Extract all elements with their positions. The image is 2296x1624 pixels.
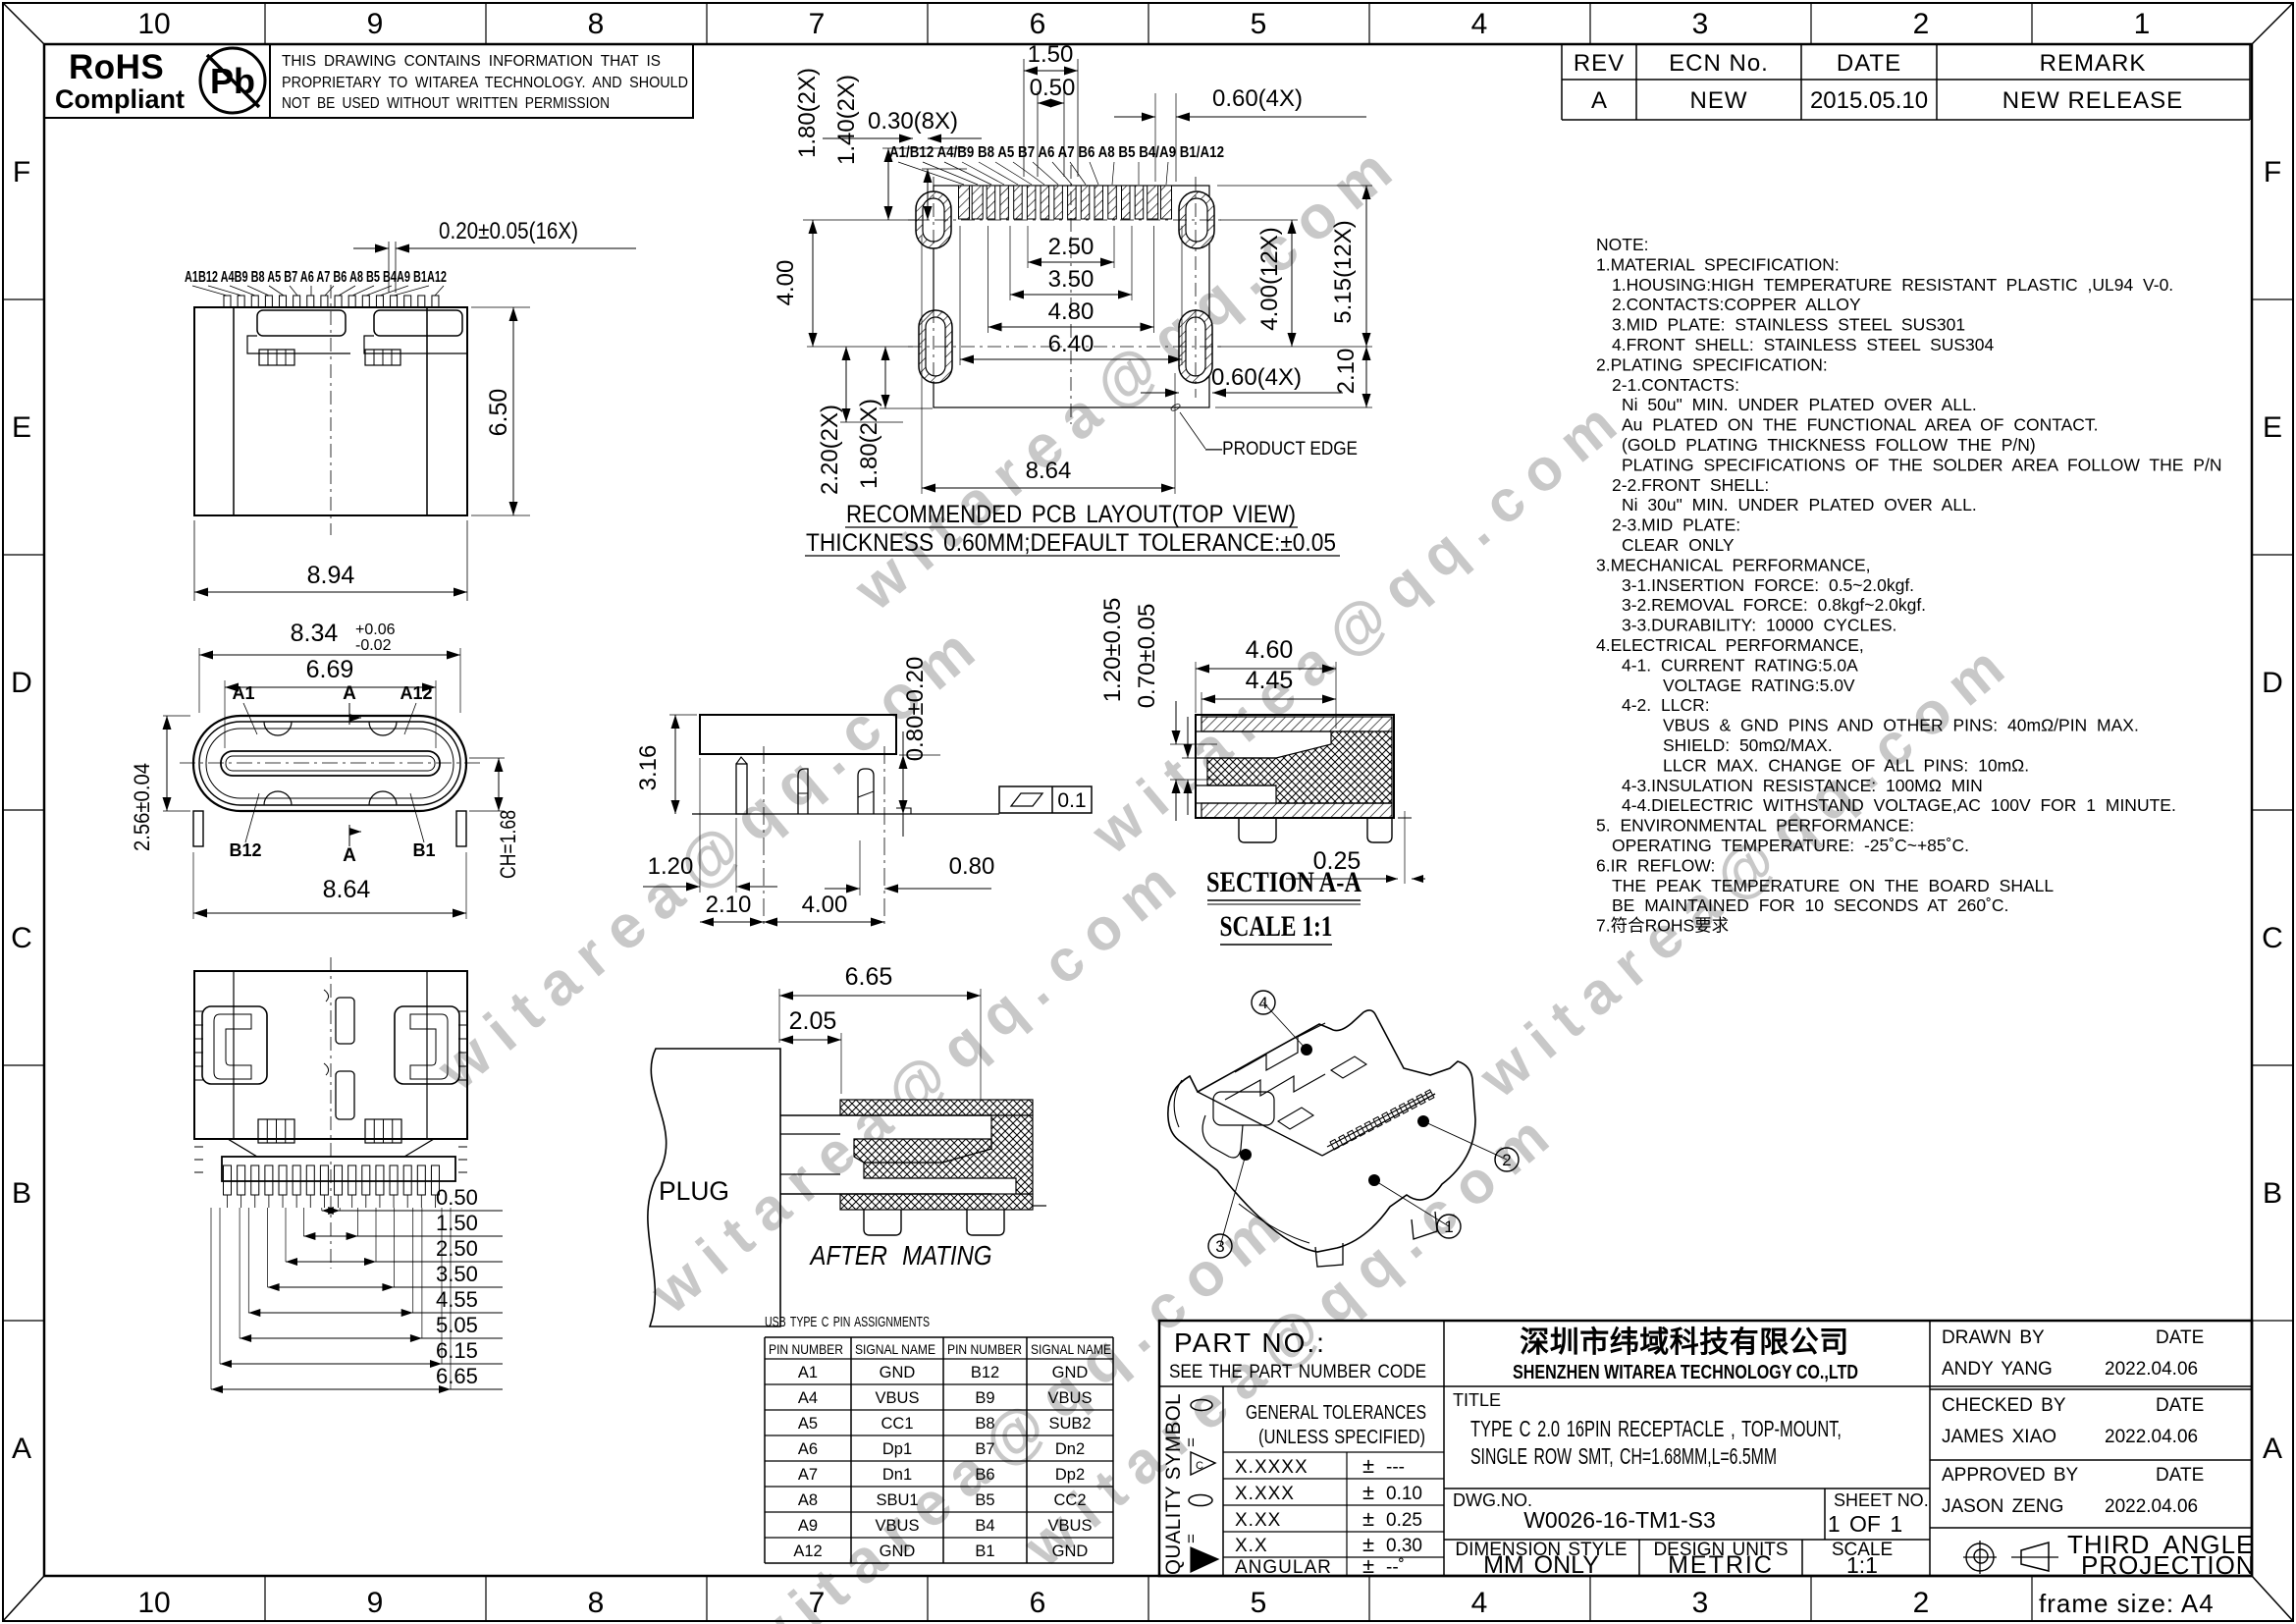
svg-text:B: B <box>2263 1177 2282 1210</box>
svg-text:2: 2 <box>1913 8 1930 40</box>
svg-text:PROPRIETARY TO WITAREA TECHNOL: PROPRIETARY TO WITAREA TECHNOLOGY. AND S… <box>282 75 688 91</box>
svg-text:VBUS: VBUS <box>876 1389 920 1407</box>
svg-text:D: D <box>2262 667 2283 699</box>
svg-text:SINGLE ROW SMT, CH=1.68MM,L=6.: SINGLE ROW SMT, CH=1.68MM,L=6.5MM <box>1470 1443 1777 1469</box>
svg-text:A9: A9 <box>798 1517 818 1535</box>
svg-text:(GOLD PLATING THICKNESS FOLLOW: (GOLD PLATING THICKNESS FOLLOW THE P/N) <box>1622 435 2036 455</box>
svg-text:A: A <box>2263 1433 2282 1465</box>
svg-text:7: 7 <box>809 8 826 40</box>
svg-text:2.CONTACTS:COPPER ALLOY: 2.CONTACTS:COPPER ALLOY <box>1612 295 1861 314</box>
svg-text:9: 9 <box>367 1587 384 1619</box>
svg-text:6.IR REFLOW:: 6.IR REFLOW: <box>1596 855 1715 875</box>
svg-text:REMARK: REMARK <box>2040 50 2147 77</box>
svg-text:2: 2 <box>1502 1151 1511 1169</box>
svg-text:BE MAINTAINED FOR 10 SECONDS A: BE MAINTAINED FOR 10 SECONDS AT 260˚C. <box>1612 895 2008 915</box>
svg-text:7: 7 <box>809 1587 826 1619</box>
svg-text:AFTER MATING: AFTER MATING <box>809 1240 992 1271</box>
svg-text:frame size: A4: frame size: A4 <box>2039 1589 2215 1618</box>
svg-text:8.64: 8.64 <box>323 876 371 903</box>
svg-text:VBUS: VBUS <box>876 1517 920 1535</box>
svg-text:1.MATERIAL SPECIFICATION:: 1.MATERIAL SPECIFICATION: <box>1596 254 1840 274</box>
svg-text:(UNLESS SPECIFIED): (UNLESS SPECIFIED) <box>1258 1427 1425 1448</box>
svg-text:3.16: 3.16 <box>635 745 662 791</box>
svg-text:2.10: 2.10 <box>1333 349 1360 395</box>
svg-text:Dn1: Dn1 <box>882 1466 912 1484</box>
svg-text:2015.05.10: 2015.05.10 <box>1810 87 1928 114</box>
svg-text:2022.04.06: 2022.04.06 <box>2105 1427 2198 1447</box>
svg-text:SEE THE PART NUMBER CODE: SEE THE PART NUMBER CODE <box>1169 1362 1426 1382</box>
svg-text:RoHS: RoHS <box>69 48 164 86</box>
svg-text:VBUS & GND PINS AND OTHER PINS: VBUS & GND PINS AND OTHER PINS: 40mΩ/PIN… <box>1663 716 2139 735</box>
svg-text:2-3.MID PLATE:: 2-3.MID PLATE: <box>1612 515 1740 535</box>
svg-text:0.70±0.05: 0.70±0.05 <box>1134 604 1160 709</box>
svg-text:8.34: 8.34 <box>291 620 339 647</box>
svg-text:1:1: 1:1 <box>1846 1552 1878 1578</box>
svg-text:3.MID PLATE: STAINLESS STEEL S: 3.MID PLATE: STAINLESS STEEL SUS301 <box>1612 315 1965 335</box>
svg-text:ANDY YANG: ANDY YANG <box>1942 1359 2053 1380</box>
svg-text:NOTE:: NOTE: <box>1596 235 1648 254</box>
svg-text:B12: B12 <box>229 840 261 860</box>
svg-text:4.ELECTRICAL PERFORMANCE,: 4.ELECTRICAL PERFORMANCE, <box>1596 635 1864 655</box>
svg-text:Compliant: Compliant <box>55 84 185 114</box>
svg-text:SHIELD: 50mΩ/MAX.: SHIELD: 50mΩ/MAX. <box>1663 735 1833 755</box>
svg-text:6.65: 6.65 <box>845 963 893 991</box>
svg-text:X.X: X.X <box>1235 1536 1268 1556</box>
svg-text:Dn2: Dn2 <box>1055 1440 1085 1458</box>
svg-text:0.10: 0.10 <box>1386 1484 1422 1504</box>
svg-text:9: 9 <box>367 8 384 40</box>
svg-text:+0.06: +0.06 <box>355 622 396 638</box>
svg-text:3.50: 3.50 <box>436 1262 478 1286</box>
svg-text:2.10: 2.10 <box>706 892 752 918</box>
svg-text:B7: B7 <box>975 1440 994 1458</box>
svg-text:0.60(4X): 0.60(4X) <box>1211 364 1302 391</box>
svg-text:5.15(12X): 5.15(12X) <box>1330 220 1357 323</box>
svg-text:PIN NUMBER: PIN NUMBER <box>769 1341 843 1357</box>
svg-text:0.25: 0.25 <box>1386 1510 1422 1531</box>
svg-text:0.80±0.20: 0.80±0.20 <box>902 657 929 762</box>
svg-text:A1/B12 A4/B9 B8 A5 B7 A6 A7 B6: A1/B12 A4/B9 B8 A5 B7 A6 A7 B6 A8 B5 B4/… <box>889 144 1224 161</box>
svg-text:VBUS: VBUS <box>1048 1389 1093 1407</box>
svg-text:X.XXXX: X.XXXX <box>1235 1457 1308 1478</box>
svg-text:1: 1 <box>1444 1218 1453 1236</box>
svg-text:3.50: 3.50 <box>1048 266 1095 293</box>
svg-text:3-2.REMOVAL FORCE: 0.8kgf~2.0k: 3-2.REMOVAL FORCE: 0.8kgf~2.0kgf. <box>1622 595 1926 615</box>
svg-text:CH=1.68: CH=1.68 <box>496 810 520 879</box>
svg-text:2.50: 2.50 <box>436 1236 478 1261</box>
svg-text:SIGNAL NAME: SIGNAL NAME <box>855 1341 935 1357</box>
svg-text:6.40: 6.40 <box>1048 331 1095 357</box>
svg-text:USB TYPE C PIN ASSIGNMENTS: USB TYPE C PIN ASSIGNMENTS <box>765 1314 930 1330</box>
svg-text:0.30: 0.30 <box>1386 1536 1422 1556</box>
svg-text:APPROVED BY: APPROVED BY <box>1942 1465 2079 1486</box>
svg-text:4: 4 <box>1471 1587 1488 1619</box>
svg-text:GENERAL TOLERANCES: GENERAL TOLERANCES <box>1246 1402 1426 1424</box>
svg-text:2022.04.06: 2022.04.06 <box>2105 1496 2198 1517</box>
svg-text:TYPE C 2.0 16PIN RECEPTACLE ,: TYPE C 2.0 16PIN RECEPTACLE , TOP-MOUNT, <box>1470 1416 1842 1441</box>
svg-text:JASON ZENG: JASON ZENG <box>1942 1496 2063 1517</box>
svg-text:1.50: 1.50 <box>1028 41 1074 68</box>
svg-text:NOT BE USED WITHOUT WRITTEN PE: NOT BE USED WITHOUT WRITTEN PERMISSION <box>282 95 610 112</box>
svg-text:Au PLATED ON THE FUNCTIONAL AR: Au PLATED ON THE FUNCTIONAL AREA OF CONT… <box>1622 415 2099 435</box>
svg-text:5.05: 5.05 <box>436 1313 478 1337</box>
svg-text:4.FRONT SHELL: STAINLESS STEEL: 4.FRONT SHELL: STAINLESS STEEL SUS304 <box>1612 335 1995 354</box>
svg-text:2-2.FRONT SHELL:: 2-2.FRONT SHELL: <box>1612 475 1769 495</box>
svg-text:DRAWN BY: DRAWN BY <box>1942 1327 2045 1348</box>
svg-text:7.符合ROHS要求: 7.符合ROHS要求 <box>1596 916 1729 936</box>
svg-text:GND: GND <box>880 1364 916 1381</box>
svg-text:W0026-16-TM1-S3: W0026-16-TM1-S3 <box>1523 1507 1716 1533</box>
svg-text:A12: A12 <box>793 1543 822 1560</box>
svg-text:Ni 50u" MIN. UNDER PLATED OVER: Ni 50u" MIN. UNDER PLATED OVER ALL. <box>1622 395 1977 414</box>
svg-text:DATE: DATE <box>2156 1465 2204 1486</box>
svg-text:B: B <box>12 1177 31 1210</box>
svg-text:CC1: CC1 <box>881 1415 913 1433</box>
svg-text:4.00(12X): 4.00(12X) <box>1256 227 1283 330</box>
svg-text:A: A <box>343 683 356 704</box>
svg-text:E: E <box>12 411 31 444</box>
svg-text:GND: GND <box>1052 1543 1089 1560</box>
svg-text:4.55: 4.55 <box>436 1287 478 1312</box>
svg-text:2.20(2X): 2.20(2X) <box>817 405 843 495</box>
svg-text:CLEAR ONLY: CLEAR ONLY <box>1622 535 1735 555</box>
svg-text:4.80: 4.80 <box>1048 298 1095 325</box>
svg-text:MM ONLY: MM ONLY <box>1483 1551 1599 1579</box>
svg-text:A5: A5 <box>798 1415 818 1433</box>
svg-text:2.50: 2.50 <box>1048 234 1095 260</box>
svg-text:3: 3 <box>1692 8 1709 40</box>
svg-text:2.05: 2.05 <box>789 1007 837 1035</box>
svg-text:5. ENVIRONMENTAL PERFORMANCE:: 5. ENVIRONMENTAL PERFORMANCE: <box>1596 816 1914 836</box>
svg-text:6: 6 <box>1030 1587 1046 1619</box>
svg-text:B12: B12 <box>971 1364 999 1381</box>
svg-text:B4: B4 <box>975 1517 994 1535</box>
svg-text:D: D <box>11 667 32 699</box>
svg-text:A1: A1 <box>798 1364 818 1381</box>
svg-text:CHECKED BY: CHECKED BY <box>1942 1395 2066 1416</box>
svg-text:4-3.INSULATION RESISTANCE: 100: 4-3.INSULATION RESISTANCE: 100MΩ MIN <box>1622 776 1983 795</box>
svg-text:SHEET NO.: SHEET NO. <box>1834 1490 1929 1510</box>
svg-text:B8: B8 <box>975 1415 994 1433</box>
svg-text:0.50: 0.50 <box>1030 75 1076 101</box>
svg-text:=: = <box>1182 1534 1201 1543</box>
svg-text:4.45: 4.45 <box>1246 667 1294 694</box>
svg-text:SCALE 1:1: SCALE 1:1 <box>1220 910 1333 943</box>
svg-text:PLUG: PLUG <box>659 1176 729 1206</box>
svg-text:C: C <box>11 922 32 954</box>
svg-text:THIS DRAWING CONTAINS INFORMAT: THIS DRAWING CONTAINS INFORMATION THAT I… <box>282 53 661 70</box>
svg-text:1 OF 1: 1 OF 1 <box>1828 1511 1902 1537</box>
svg-text:SIGNAL NAME: SIGNAL NAME <box>1031 1341 1111 1357</box>
svg-text:6: 6 <box>1030 8 1046 40</box>
svg-text:3: 3 <box>1215 1237 1224 1256</box>
svg-text:DATE: DATE <box>1837 50 1901 77</box>
svg-text:SECTION A-A: SECTION A-A <box>1206 866 1362 898</box>
svg-text:REV: REV <box>1574 50 1625 77</box>
svg-text:PART NO.:: PART NO.: <box>1174 1327 1326 1358</box>
svg-text:THE PEAK TEMPERATURE ON THE BO: THE PEAK TEMPERATURE ON THE BOARD SHALL <box>1612 876 2054 895</box>
svg-text:1.80(2X): 1.80(2X) <box>794 68 821 158</box>
svg-text:PLATING SPECIFICATIONS OF THE: PLATING SPECIFICATIONS OF THE SOLDER ARE… <box>1622 455 2221 474</box>
svg-text:5: 5 <box>1251 8 1267 40</box>
svg-text:C: C <box>2262 922 2283 954</box>
svg-text:A: A <box>1591 87 1607 114</box>
svg-text:DATE: DATE <box>2156 1395 2204 1416</box>
svg-text:A6: A6 <box>798 1440 818 1458</box>
svg-text:B1: B1 <box>412 840 435 860</box>
svg-text:X.XXX: X.XXX <box>1235 1484 1295 1504</box>
svg-text:8: 8 <box>588 8 605 40</box>
svg-text:±: ± <box>1362 1453 1374 1478</box>
svg-text:SHENZHEN WITAREA TECHNOLOGY CO: SHENZHEN WITAREA TECHNOLOGY CO.,LTD <box>1513 1362 1858 1383</box>
svg-text:4-2. LLCR:: 4-2. LLCR: <box>1622 695 1710 715</box>
svg-text:A: A <box>343 845 356 866</box>
svg-text:4-1. CURRENT RATING:5.0A: 4-1. CURRENT RATING:5.0A <box>1622 655 1858 675</box>
svg-text:2.56±0.04: 2.56±0.04 <box>130 763 154 851</box>
svg-text:QUALITY SYMBOL: QUALITY SYMBOL <box>1161 1393 1185 1575</box>
svg-text:8: 8 <box>588 1587 605 1619</box>
svg-text:0.30(8X): 0.30(8X) <box>868 108 958 135</box>
svg-text:1.20±0.05: 1.20±0.05 <box>1099 598 1126 703</box>
svg-text:3-1.INSERTION FORCE: 0.5~2.0kg: 3-1.INSERTION FORCE: 0.5~2.0kgf. <box>1622 575 1914 595</box>
svg-text:6.69: 6.69 <box>306 656 354 683</box>
svg-text:DWG.NO.: DWG.NO. <box>1453 1490 1532 1510</box>
svg-text:A7: A7 <box>798 1466 818 1484</box>
svg-text:E: E <box>2263 411 2282 444</box>
svg-text:10: 10 <box>137 8 170 40</box>
svg-text:±: ± <box>1362 1553 1374 1578</box>
svg-text:6.65: 6.65 <box>436 1364 478 1388</box>
svg-text:GND: GND <box>880 1543 916 1560</box>
svg-text:JAMES XIAO: JAMES XIAO <box>1942 1427 2056 1447</box>
svg-text:X.XX: X.XX <box>1235 1510 1281 1531</box>
svg-text:1.HOUSING:HIGH TEMPERATURE RES: 1.HOUSING:HIGH TEMPERATURE RESISTANT PLA… <box>1612 275 2173 295</box>
svg-text:-0.02: -0.02 <box>355 637 392 654</box>
svg-text:A1B12 A4B9 B8 A5 B7 A6 A7 B6 A: A1B12 A4B9 B8 A5 B7 A6 A7 B6 A8 B5 B4A9 … <box>185 269 447 286</box>
svg-text:8.94: 8.94 <box>307 562 355 589</box>
svg-text:F: F <box>13 156 30 189</box>
svg-text:GND: GND <box>1052 1364 1089 1381</box>
svg-text:NEW: NEW <box>1690 87 1748 114</box>
svg-text:6.15: 6.15 <box>436 1338 478 1363</box>
svg-text:B9: B9 <box>975 1389 994 1407</box>
svg-text:4.00: 4.00 <box>802 892 848 918</box>
svg-text:1.50: 1.50 <box>436 1211 478 1235</box>
svg-text:0.20±0.05(16X): 0.20±0.05(16X) <box>439 218 578 244</box>
svg-text:RECOMMENDED PCB LAYOUT(TOP VIE: RECOMMENDED PCB LAYOUT(TOP VIEW) <box>846 501 1296 528</box>
svg-text:1.40(2X): 1.40(2X) <box>833 75 860 165</box>
svg-text:4-4.DIELECTRIC WITHSTAND VOLTA: 4-4.DIELECTRIC WITHSTAND VOLTAGE,AC 100V… <box>1622 795 2176 815</box>
svg-text:4.60: 4.60 <box>1246 636 1294 664</box>
svg-text:B5: B5 <box>975 1491 994 1509</box>
svg-text:VOLTAGE RATING:5.0V: VOLTAGE RATING:5.0V <box>1663 676 1855 695</box>
svg-text:1: 1 <box>2134 8 2151 40</box>
svg-text:F: F <box>2264 156 2281 189</box>
svg-text:4: 4 <box>1471 8 1488 40</box>
svg-text:8.64: 8.64 <box>1026 458 1072 484</box>
svg-text:NEW RELEASE: NEW RELEASE <box>2002 87 2183 114</box>
svg-text:--˚: --˚ <box>1386 1557 1405 1578</box>
svg-text:C: C <box>1196 1460 1203 1472</box>
svg-text:0.60(4X): 0.60(4X) <box>1212 85 1303 112</box>
svg-text:深圳市纬域科技有限公司: 深圳市纬域科技有限公司 <box>1520 1326 1849 1359</box>
svg-text:2022.04.06: 2022.04.06 <box>2105 1359 2198 1380</box>
svg-text:LLCR MAX. CHANGE OF ALL PINS:: LLCR MAX. CHANGE OF ALL PINS: 10mΩ. <box>1663 755 2029 775</box>
svg-text:=: = <box>1182 1437 1201 1447</box>
svg-text:SBU1: SBU1 <box>876 1491 918 1509</box>
svg-text:ANGULAR: ANGULAR <box>1235 1557 1332 1578</box>
svg-text:VBUS: VBUS <box>1048 1517 1093 1535</box>
svg-text:A4: A4 <box>798 1389 818 1407</box>
svg-text:1.80(2X): 1.80(2X) <box>856 399 882 489</box>
svg-text:10: 10 <box>137 1587 170 1619</box>
svg-text:3-3.DURABILITY: 10000 CYCLES.: 3-3.DURABILITY: 10000 CYCLES. <box>1622 616 1896 635</box>
svg-text:0.80: 0.80 <box>949 853 995 880</box>
svg-text:OPERATING TEMPERATURE: -25˚C~+: OPERATING TEMPERATURE: -25˚C~+85˚C. <box>1612 836 1969 855</box>
svg-text:---: --- <box>1386 1457 1405 1478</box>
svg-text:ECN No.: ECN No. <box>1669 50 1769 77</box>
svg-text:4.00: 4.00 <box>773 260 799 306</box>
svg-text:±: ± <box>1362 1506 1374 1531</box>
svg-text:0.50: 0.50 <box>436 1185 478 1210</box>
svg-text:TITLE: TITLE <box>1453 1390 1501 1410</box>
svg-text:THICKNESS 0.60MM;DEFAULT TOLER: THICKNESS 0.60MM;DEFAULT TOLERANCE:±0.05 <box>806 529 1336 557</box>
svg-text:±: ± <box>1362 1480 1374 1504</box>
svg-text:6.50: 6.50 <box>485 389 512 437</box>
svg-text:PIN NUMBER: PIN NUMBER <box>947 1341 1022 1357</box>
svg-text:B1: B1 <box>975 1543 994 1560</box>
svg-text:1.20: 1.20 <box>648 853 694 880</box>
svg-text:PROJECTION: PROJECTION <box>2081 1550 2256 1580</box>
svg-text:A8: A8 <box>798 1491 818 1509</box>
svg-text:DATE: DATE <box>2156 1327 2204 1348</box>
svg-text:A: A <box>12 1433 31 1465</box>
svg-text:0.1: 0.1 <box>1057 789 1086 812</box>
svg-text:B6: B6 <box>975 1466 994 1484</box>
svg-text:Ni 30u" MIN. UNDER PLATED OVER: Ni 30u" MIN. UNDER PLATED OVER ALL. <box>1622 495 1977 514</box>
svg-text:Dp1: Dp1 <box>882 1440 912 1458</box>
svg-text:2.PLATING SPECIFICATION:: 2.PLATING SPECIFICATION: <box>1596 354 1828 374</box>
svg-text:2: 2 <box>1913 1587 1930 1619</box>
svg-text:5: 5 <box>1251 1587 1267 1619</box>
svg-text:2-1.CONTACTS:: 2-1.CONTACTS: <box>1612 375 1739 395</box>
svg-text:3.MECHANICAL PERFORMANCE,: 3.MECHANICAL PERFORMANCE, <box>1596 555 1871 574</box>
svg-text:CC2: CC2 <box>1053 1491 1086 1509</box>
svg-text:SUB2: SUB2 <box>1048 1415 1091 1433</box>
svg-text:Dp2: Dp2 <box>1055 1466 1085 1484</box>
svg-text:3: 3 <box>1692 1587 1709 1619</box>
svg-text:METRIC: METRIC <box>1668 1551 1774 1579</box>
svg-text:—PRODUCT EDGE: —PRODUCT EDGE <box>1205 439 1358 460</box>
